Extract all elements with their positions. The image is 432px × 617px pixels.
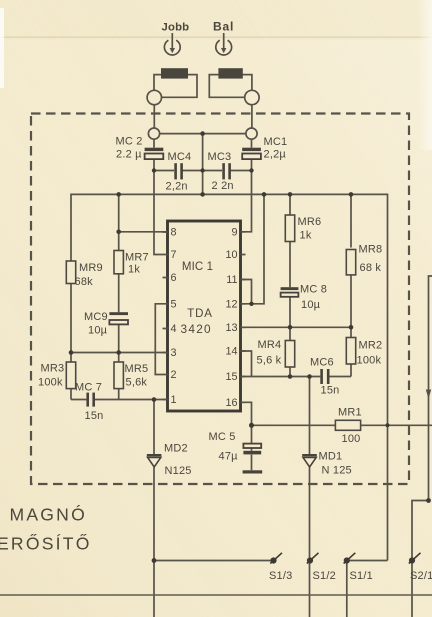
svg-text:TDA: TDA	[187, 308, 212, 320]
svg-text:100k: 100k	[357, 355, 382, 367]
svg-text:MAGNÓ: MAGNÓ	[10, 504, 87, 525]
svg-text:4: 4	[171, 323, 177, 335]
svg-text:3420: 3420	[180, 322, 211, 336]
svg-text:N125: N125	[165, 465, 192, 477]
svg-text:1k: 1k	[300, 230, 312, 242]
svg-text:15n: 15n	[85, 410, 104, 422]
svg-text:7: 7	[171, 249, 177, 261]
svg-text:2: 2	[171, 369, 177, 381]
svg-text:S2/1: S2/1	[410, 570, 432, 582]
svg-text:10µ: 10µ	[88, 325, 108, 337]
svg-text:14: 14	[225, 346, 237, 358]
svg-text:1: 1	[171, 394, 177, 406]
svg-text:N 125: N 125	[322, 465, 352, 477]
svg-text:11: 11	[226, 274, 237, 286]
svg-text:MC1: MC1	[264, 136, 288, 148]
svg-text:MC9: MC9	[84, 311, 108, 323]
svg-text:15: 15	[225, 371, 237, 383]
svg-text:5,6k: 5,6k	[126, 377, 148, 389]
svg-text:MC 5: MC 5	[209, 431, 236, 443]
svg-text:MD2: MD2	[164, 443, 188, 455]
svg-text:MC6: MC6	[310, 357, 334, 369]
svg-text:Jobb: Jobb	[162, 22, 190, 34]
svg-text:ERŐSÍTŐ: ERŐSÍTŐ	[0, 533, 92, 554]
svg-text:MR9: MR9	[79, 262, 103, 274]
svg-text:100k: 100k	[38, 377, 63, 389]
svg-text:MC3: MC3	[208, 151, 232, 163]
svg-text:MC4: MC4	[168, 151, 192, 163]
svg-text:Bal: Bal	[213, 20, 234, 34]
svg-text:2.2 µ: 2.2 µ	[116, 149, 142, 161]
svg-text:1k: 1k	[128, 264, 140, 276]
svg-text:2 2n: 2 2n	[212, 180, 234, 192]
svg-text:15n: 15n	[321, 385, 340, 397]
svg-text:6: 6	[171, 272, 177, 284]
svg-text:MR4: MR4	[258, 339, 282, 351]
svg-text:MR2: MR2	[359, 340, 383, 352]
svg-text:MR6: MR6	[298, 216, 322, 228]
svg-text:3: 3	[171, 347, 177, 359]
svg-text:10: 10	[225, 249, 237, 261]
svg-text:9: 9	[231, 226, 237, 238]
svg-text:S1/1: S1/1	[350, 570, 373, 582]
svg-text:16: 16	[225, 397, 237, 409]
svg-text:MR5: MR5	[125, 363, 149, 375]
svg-text:5,6 k: 5,6 k	[257, 355, 282, 367]
svg-text:10µ: 10µ	[301, 299, 321, 311]
svg-text:2,2n: 2,2n	[166, 181, 188, 193]
svg-text:MR3: MR3	[41, 363, 65, 375]
svg-text:MIC 1: MIC 1	[182, 261, 213, 273]
svg-text:S1/3: S1/3	[269, 570, 292, 582]
svg-text:12: 12	[225, 298, 237, 310]
svg-text:47µ: 47µ	[219, 451, 239, 463]
svg-text:MC 7: MC 7	[75, 382, 102, 394]
svg-text:2,2µ: 2,2µ	[264, 149, 287, 161]
svg-text:13: 13	[225, 322, 237, 334]
svg-text:MD1: MD1	[319, 451, 343, 463]
svg-text:100: 100	[342, 433, 361, 445]
svg-text:MR1: MR1	[338, 407, 362, 419]
svg-text:8: 8	[171, 227, 177, 239]
svg-text:5: 5	[171, 298, 177, 310]
svg-text:MC 2: MC 2	[116, 136, 143, 148]
svg-text:S1/2: S1/2	[313, 570, 336, 582]
svg-text:MR7: MR7	[125, 252, 149, 264]
svg-text:68k: 68k	[75, 276, 94, 288]
svg-text:68 k: 68 k	[360, 262, 382, 274]
svg-text:MR8: MR8	[359, 244, 383, 256]
svg-text:MC 8: MC 8	[300, 284, 327, 296]
